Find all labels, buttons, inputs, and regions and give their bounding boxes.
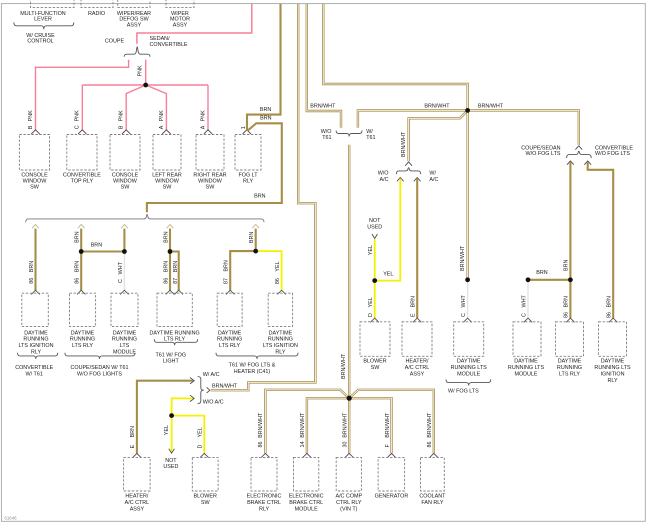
svg-text:RUNNING: RUNNING [23, 337, 48, 343]
svg-text:C: C [75, 125, 81, 129]
svg-text:BRN: BRN [29, 261, 35, 272]
svg-text:ASSY: ASSY [127, 22, 142, 28]
svg-text:C: C [461, 313, 467, 317]
wire BRN coupe/sedan w/o fog lts [569, 162, 571, 318]
wire 86 BRN/WHT to coolant fan rly [349, 390, 434, 453]
svg-text:FOG LT: FOG LT [238, 172, 258, 178]
svg-text:LTS RLY: LTS RLY [164, 337, 185, 343]
svg-text:RUNNING LTS: RUNNING LTS [451, 365, 488, 371]
wire BRN/WHT output to top border [211, 4, 316, 390]
svg-text:COUPE/SEDAN W/ T61: COUPE/SEDAN W/ T61 [70, 365, 128, 371]
svg-text:RIGHT REAR: RIGHT REAR [193, 172, 226, 178]
arrow w/o a/c branch [397, 178, 404, 182]
component BLOWER SW R [360, 322, 390, 357]
svg-text:BRN/WHT: BRN/WHT [258, 412, 264, 438]
wire YEL to not used bottom [171, 416, 173, 453]
component HEATER A/C CTRL ASSY [124, 457, 151, 491]
wire C WHT to module R4 [527, 280, 529, 318]
svg-text:DAYTIME: DAYTIME [558, 359, 582, 365]
connector box WIPER MOTOR ASSY (partial) [166, 0, 194, 8]
svg-text:YEL: YEL [368, 297, 374, 307]
wire PNK to console window sw [36, 60, 129, 131]
svg-text:LEVER: LEVER [34, 17, 52, 23]
component FOG LT RLY [235, 135, 261, 171]
not used bottom chevron [169, 449, 175, 453]
svg-text:61646: 61646 [4, 515, 17, 520]
svg-text:PNK: PNK [201, 110, 207, 121]
svg-text:WHT: WHT [118, 261, 124, 274]
component BLOWER SW [192, 457, 218, 491]
component ELECTRONIC BRAKE CTRL RLY [251, 457, 277, 491]
svg-text:BRN: BRN [224, 260, 230, 271]
svg-text:A/C: A/C [380, 177, 389, 183]
svg-text:T61: T61 [366, 135, 375, 141]
svg-text:86: 86 [427, 442, 433, 448]
svg-text:BRN: BRN [260, 107, 271, 113]
svg-text:D: D [368, 313, 374, 317]
svg-text:COOLANT: COOLANT [419, 494, 446, 500]
svg-text:SW: SW [201, 500, 211, 506]
wire E BRN to heater a/c ctrl assy R [416, 179, 418, 319]
brace CONVERTIBLE W/ T61 [18, 353, 58, 359]
svg-text:WINDOW: WINDOW [113, 179, 138, 185]
svg-text:BRN/WHT: BRN/WHT [460, 245, 466, 271]
svg-text:A/C CTRL: A/C CTRL [125, 500, 150, 506]
svg-text:BRN: BRN [536, 270, 547, 276]
svg-text:WHT: WHT [461, 295, 467, 308]
svg-text:HEATER/: HEATER/ [406, 359, 429, 365]
component DAYTIME RUNNING LTS MODULE L3 [111, 293, 138, 326]
svg-text:RLY: RLY [243, 179, 253, 185]
merge arrows under brace [32, 224, 39, 228]
svg-text:CONSOLE: CONSOLE [21, 172, 48, 178]
svg-text:RLY: RLY [31, 350, 41, 356]
svg-text:CONTROL: CONTROL [27, 39, 53, 45]
wire E BRN from heater assy [137, 381, 193, 454]
svg-text:SW: SW [30, 185, 40, 191]
component CONVERTIBLE TOP RLY [67, 135, 97, 171]
svg-text:86: 86 [607, 312, 613, 318]
svg-text:BRAKE CTRL: BRAKE CTRL [247, 500, 281, 506]
component HEATER A/C CTRL ASSY R [402, 322, 432, 357]
svg-text:HEATER (C41): HEATER (C41) [234, 369, 271, 375]
svg-text:BRN/WHT: BRN/WHT [212, 384, 238, 390]
connector chevrons bottom row [133, 453, 141, 457]
svg-text:BRAKE CTRL: BRAKE CTRL [289, 500, 323, 506]
svg-text:HEATER/: HEATER/ [125, 494, 148, 500]
svg-text:C: C [521, 313, 527, 317]
connector box RADIO (partial) [81, 0, 113, 8]
svg-text:BRN: BRN [75, 261, 81, 272]
wire C WHT to daytime running lts module [123, 252, 125, 291]
svg-text:YEL: YEL [383, 272, 393, 278]
svg-text:D: D [198, 445, 204, 449]
wire drop3 BRN upper [123, 229, 125, 252]
wire BRN drop 2 [80, 229, 82, 291]
not used end chevron [372, 234, 378, 238]
svg-text:PNK: PNK [138, 65, 144, 76]
svg-text:WINDOW: WINDOW [155, 179, 180, 185]
arrow w/ a/c input [190, 378, 194, 384]
component DAYTIME RUNNING LTS RLY L2 [70, 293, 96, 326]
svg-text:MODULE: MODULE [457, 372, 480, 378]
svg-text:T61 W/ FOG LTS &: T61 W/ FOG LTS & [229, 363, 276, 369]
svg-text:YEL: YEL [275, 261, 281, 271]
connector box MULTI-FUNCTION LEVER (partial) [31, 0, 75, 8]
svg-text:LIGHT: LIGHT [163, 359, 180, 365]
component DAYTIME RUNNING LTS RLY R5 [556, 322, 584, 357]
brace coupe/sedan split [124, 47, 150, 57]
connector chevrons row2 right [371, 318, 379, 322]
wire A PNK to left rear window sw [146, 85, 167, 131]
svg-text:CONVERTIBLE: CONVERTIBLE [150, 42, 188, 48]
svg-text:SW: SW [371, 365, 381, 371]
wire C PNK to convertible top rly [81, 85, 83, 131]
wire BRN/WHT from top 2 [323, 4, 467, 110]
svg-text:ASSY: ASSY [130, 507, 145, 513]
wire 87 BRN pin [170, 252, 179, 291]
svg-text:BRN/WHT: BRN/WHT [341, 353, 347, 379]
brace T61 W/ FOG LTS & HEATER (C41) [216, 353, 298, 359]
svg-text:BRN: BRN [260, 116, 271, 122]
svg-text:BRN: BRN [254, 194, 265, 200]
svg-text:BRN: BRN [564, 260, 570, 271]
wire BRN cross to module [81, 250, 124, 252]
svg-text:DAYTIME: DAYTIME [269, 330, 293, 336]
svg-text:E: E [411, 313, 417, 317]
connector chevrons row2 left [31, 290, 39, 294]
svg-text:SW: SW [121, 185, 131, 191]
wire BRN from top to fog lt rly [247, 4, 281, 130]
svg-text:DAYTIME: DAYTIME [218, 330, 242, 336]
svg-text:A/C: A/C [429, 177, 438, 183]
wire C WHT to module R3 [467, 280, 469, 318]
svg-text:LTS IGNITION: LTS IGNITION [263, 343, 298, 349]
svg-text:RUNNING: RUNNING [217, 337, 242, 343]
svg-text:ASSY: ASSY [410, 372, 425, 378]
svg-text:CONVERTIBLE: CONVERTIBLE [63, 172, 101, 178]
svg-text:BRN: BRN [75, 231, 81, 242]
wire BRN/WHT to fog lts split [468, 110, 579, 145]
svg-text:CONSOLE: CONSOLE [112, 172, 139, 178]
svg-text:W/O FOG LTS: W/O FOG LTS [595, 151, 630, 157]
wire BRN drop 5 [255, 229, 257, 252]
wire BRN drop 4 [169, 229, 171, 291]
svg-text:BRN/WHT: BRN/WHT [478, 103, 504, 109]
svg-text:BRN: BRN [163, 231, 169, 242]
component DAYTIME RUNNING LTS MODULE R3 [454, 322, 484, 357]
wire YEL not used to blower sw R [374, 239, 376, 318]
wire A PNK to right rear window sw [207, 85, 209, 131]
wire BRN/WHT to W/T61 [358, 110, 468, 127]
svg-text:RLY: RLY [259, 507, 269, 513]
svg-text:LTS RLY: LTS RLY [219, 343, 240, 349]
svg-text:86: 86 [564, 312, 570, 318]
svg-text:BRN: BRN [249, 232, 255, 243]
wire 86 BRN/WHT to electronic brake ctrl rly [265, 390, 349, 453]
wire BRN/WHT w/o a/c output [409, 110, 468, 161]
svg-text:86: 86 [258, 442, 264, 448]
svg-text:14: 14 [300, 442, 306, 448]
svg-text:PNK: PNK [159, 110, 165, 121]
svg-text:DAYTIME: DAYTIME [601, 359, 625, 365]
svg-text:W/O A/C: W/O A/C [203, 400, 224, 406]
component DAYTIME RUNNING LTS RLY L4 [157, 293, 192, 326]
svg-text:BRN/WHT: BRN/WHT [424, 103, 450, 109]
svg-text:NOT: NOT [369, 218, 381, 224]
wire F BRN/WHT to generator [349, 398, 391, 453]
svg-text:LTS IGNITION: LTS IGNITION [19, 343, 54, 349]
brace w/a/c-w/o a/c merge left [198, 377, 204, 404]
wire BRN fog lt rly to bus [147, 123, 282, 212]
svg-text:DAYTIME: DAYTIME [71, 330, 95, 336]
brace W/O A/C | W/ A/C [396, 168, 420, 175]
svg-text:86: 86 [29, 278, 35, 284]
wire PNK bus [82, 84, 208, 86]
wire BRN/WHT from top 1 [307, 4, 341, 128]
wire PNK to junction [145, 60, 147, 85]
svg-text:MODULE: MODULE [113, 350, 136, 356]
svg-text:USED: USED [367, 224, 382, 230]
svg-text:87: 87 [224, 278, 230, 284]
junction dots layer [143, 83, 148, 88]
svg-text:RUNNING: RUNNING [70, 337, 95, 343]
svg-text:BLOWER: BLOWER [194, 494, 217, 500]
svg-text:RLY: RLY [275, 350, 285, 356]
component DAYTIME RUNNING LTS IGNITION RLY L1 [22, 293, 49, 326]
svg-text:BRN: BRN [163, 261, 169, 272]
svg-text:BRN: BRN [173, 261, 179, 272]
svg-text:BRN/WHT: BRN/WHT [427, 412, 433, 438]
svg-text:86: 86 [75, 278, 81, 284]
svg-text:DAYTIME: DAYTIME [24, 330, 48, 336]
svg-text:IGNITION: IGNITION [601, 372, 625, 378]
svg-text:DAYTIME: DAYTIME [514, 359, 538, 365]
component CONSOLE WINDOW SW 2 [110, 135, 140, 171]
brace coupe-sedan/convertible fog lts merge [567, 151, 592, 158]
wire 87 BRN to daytime running lts rly [230, 251, 256, 290]
svg-text:MODULE: MODULE [295, 507, 318, 513]
svg-text:BRN/WHT: BRN/WHT [300, 412, 306, 438]
svg-text:E: E [130, 445, 136, 449]
svg-text:A: A [159, 125, 165, 129]
svg-text:LTS RLY: LTS RLY [559, 372, 580, 378]
wire YEL w/o a/c input [172, 398, 194, 415]
svg-text:BRN: BRN [411, 296, 417, 307]
merge chevron woac [405, 162, 412, 166]
svg-text:LEFT REAR: LEFT REAR [152, 172, 182, 178]
svg-text:RUNNING: RUNNING [557, 365, 582, 371]
svg-text:ASSY: ASSY [173, 22, 188, 28]
svg-text:LTS RLY: LTS RLY [72, 343, 93, 349]
svg-text:RUNNING: RUNNING [112, 337, 137, 343]
wire BRN cross 528-570 [528, 279, 570, 281]
component CONSOLE WINDOW SW [19, 135, 49, 171]
component GENERATOR [378, 457, 405, 491]
svg-text:NOT: NOT [165, 458, 177, 464]
svg-text:BRN: BRN [130, 426, 136, 437]
svg-text:WINDOW: WINDOW [198, 179, 223, 185]
svg-text:T61: T61 [322, 135, 331, 141]
svg-text:GENERATOR: GENERATOR [375, 494, 409, 500]
svg-text:YEL: YEL [164, 425, 170, 435]
svg-text:PNK: PNK [28, 110, 34, 121]
wire YEL w/o a/c [375, 179, 401, 281]
svg-text:A: A [201, 125, 207, 129]
svg-text:SW: SW [163, 185, 173, 191]
svg-text:DAYTIME RUNNING: DAYTIME RUNNING [149, 330, 199, 336]
svg-text:WINDOW: WINDOW [23, 179, 48, 185]
arrow convertible branch [584, 161, 591, 165]
svg-text:ELECTRONIC: ELECTRONIC [247, 494, 282, 500]
connector box WIPER/REAR DEFOG SW ASSY (partial) [118, 0, 150, 8]
svg-text:(VIN T): (VIN T) [340, 507, 357, 513]
component DAYTIME RUNNING LTS MODULE R4 [513, 322, 541, 357]
merge chevron fog lts [575, 146, 582, 150]
component DAYTIME RUNNING LTS RLY L5 [217, 293, 242, 326]
wire BRN/WHT main vertical [348, 145, 350, 399]
svg-text:C: C [118, 279, 124, 283]
brace COUPE/SEDAN W/ T61 W/O FOG LIGHTS [65, 353, 135, 359]
brace T61 W/ FOG LIGHT [154, 339, 198, 345]
svg-text:RADIO: RADIO [88, 11, 105, 17]
svg-text:30: 30 [342, 442, 348, 448]
component COOLANT FAN RLY [421, 457, 445, 491]
svg-text:RUNNING LTS: RUNNING LTS [594, 365, 631, 371]
svg-text:W/: W/ [429, 171, 436, 177]
component DAYTIME RUNNING LTS IGNITION RLY R6 [599, 322, 627, 357]
connector chevrons row1 [31, 130, 39, 134]
wire 14 BRN/WHT to electronic brake ctrl module [307, 398, 349, 453]
svg-text:FAN RLY: FAN RLY [421, 500, 443, 506]
svg-text:MODULE: MODULE [514, 372, 537, 378]
svg-text:87: 87 [173, 278, 179, 284]
brace under multi-function lever [14, 22, 74, 29]
svg-text:SW: SW [206, 185, 216, 191]
arrow w/ a/c branch [414, 178, 421, 182]
svg-text:A/C CTRL: A/C CTRL [405, 365, 430, 371]
svg-text:W/O FOG LTS: W/O FOG LTS [526, 151, 561, 157]
arrow w/o a/c input [190, 395, 194, 401]
svg-text:W/ T61: W/ T61 [26, 371, 43, 377]
svg-text:W/O FOG LIGHTS: W/O FOG LIGHTS [77, 371, 122, 377]
svg-text:BRN: BRN [564, 296, 570, 307]
wire BRN convertible w/o fog lts [588, 162, 614, 318]
svg-text:ELECTRONIC: ELECTRONIC [289, 494, 324, 500]
component ELECTRONIC BRAKE CTRL MODULE [294, 457, 319, 491]
svg-text:BRN: BRN [91, 243, 102, 249]
svg-text:86: 86 [163, 278, 169, 284]
svg-text:RUNNING LTS: RUNNING LTS [508, 365, 545, 371]
svg-text:USED: USED [163, 464, 178, 470]
svg-text:LTS: LTS [120, 343, 130, 349]
svg-text:RLY: RLY [607, 378, 617, 384]
wire 30 BRN/WHT to a/c comp ctrl rly [348, 398, 350, 453]
svg-text:CONVERTIBLE: CONVERTIBLE [15, 365, 53, 371]
wire B PNK to console window sw 2 [126, 85, 146, 131]
wire D YEL to blower sw [172, 416, 205, 454]
svg-text:BRN/WHT: BRN/WHT [310, 104, 336, 110]
svg-text:DAYTIME: DAYTIME [113, 330, 137, 336]
svg-text:COUPE: COUPE [105, 39, 125, 45]
svg-text:CTRL RLY: CTRL RLY [336, 500, 362, 506]
brace W/ FOG LTS [446, 379, 491, 385]
svg-text:WHT: WHT [521, 295, 527, 308]
svg-text:RUNNING: RUNNING [268, 337, 293, 343]
wire 86 YEL to daytime running lts ignition rly [256, 251, 282, 290]
brace W/O T61 | W/ T61 merge [336, 131, 362, 137]
svg-text:86: 86 [275, 278, 281, 284]
svg-text:BLOWER: BLOWER [363, 359, 386, 365]
component RIGHT REAR WINDOW SW [196, 135, 224, 171]
svg-text:W/ FOG LTS: W/ FOG LTS [448, 388, 479, 394]
svg-text:DAYTIME: DAYTIME [457, 359, 481, 365]
svg-text:B: B [119, 125, 125, 129]
brace BRN distribution [26, 215, 264, 223]
svg-text:PNK: PNK [75, 110, 81, 121]
svg-text:BRN/WHT: BRN/WHT [385, 412, 391, 438]
svg-text:TOP RLY: TOP RLY [71, 179, 94, 185]
svg-text:YEL: YEL [368, 245, 374, 255]
component LEFT REAR WINDOW SW [153, 135, 181, 171]
svg-text:BRN/WHT: BRN/WHT [401, 131, 407, 157]
svg-text:BRN: BRN [607, 296, 613, 307]
svg-text:W/ A/C: W/ A/C [203, 372, 220, 378]
wire 86 BRN to daytime running lts ignition rly [34, 229, 36, 291]
wire PNK from top border [137, 4, 252, 44]
arrow coupe/sedan branch [567, 161, 574, 165]
svg-text:B: B [28, 125, 34, 129]
svg-text:W/O: W/O [378, 171, 389, 177]
svg-text:A/C COMP: A/C COMP [335, 494, 362, 500]
component A/C COMP CTRL RLY VIN T [336, 457, 361, 491]
svg-text:YEL: YEL [198, 427, 204, 437]
wire BRN/WHT down from main junction [466, 110, 468, 279]
svg-text:BRN/WHT: BRN/WHT [342, 412, 348, 438]
svg-text:PNK: PNK [119, 110, 125, 121]
component DAYTIME RUNNING LTS IGNITION RLY L6 [268, 293, 292, 326]
merge chevron output right [207, 387, 210, 393]
